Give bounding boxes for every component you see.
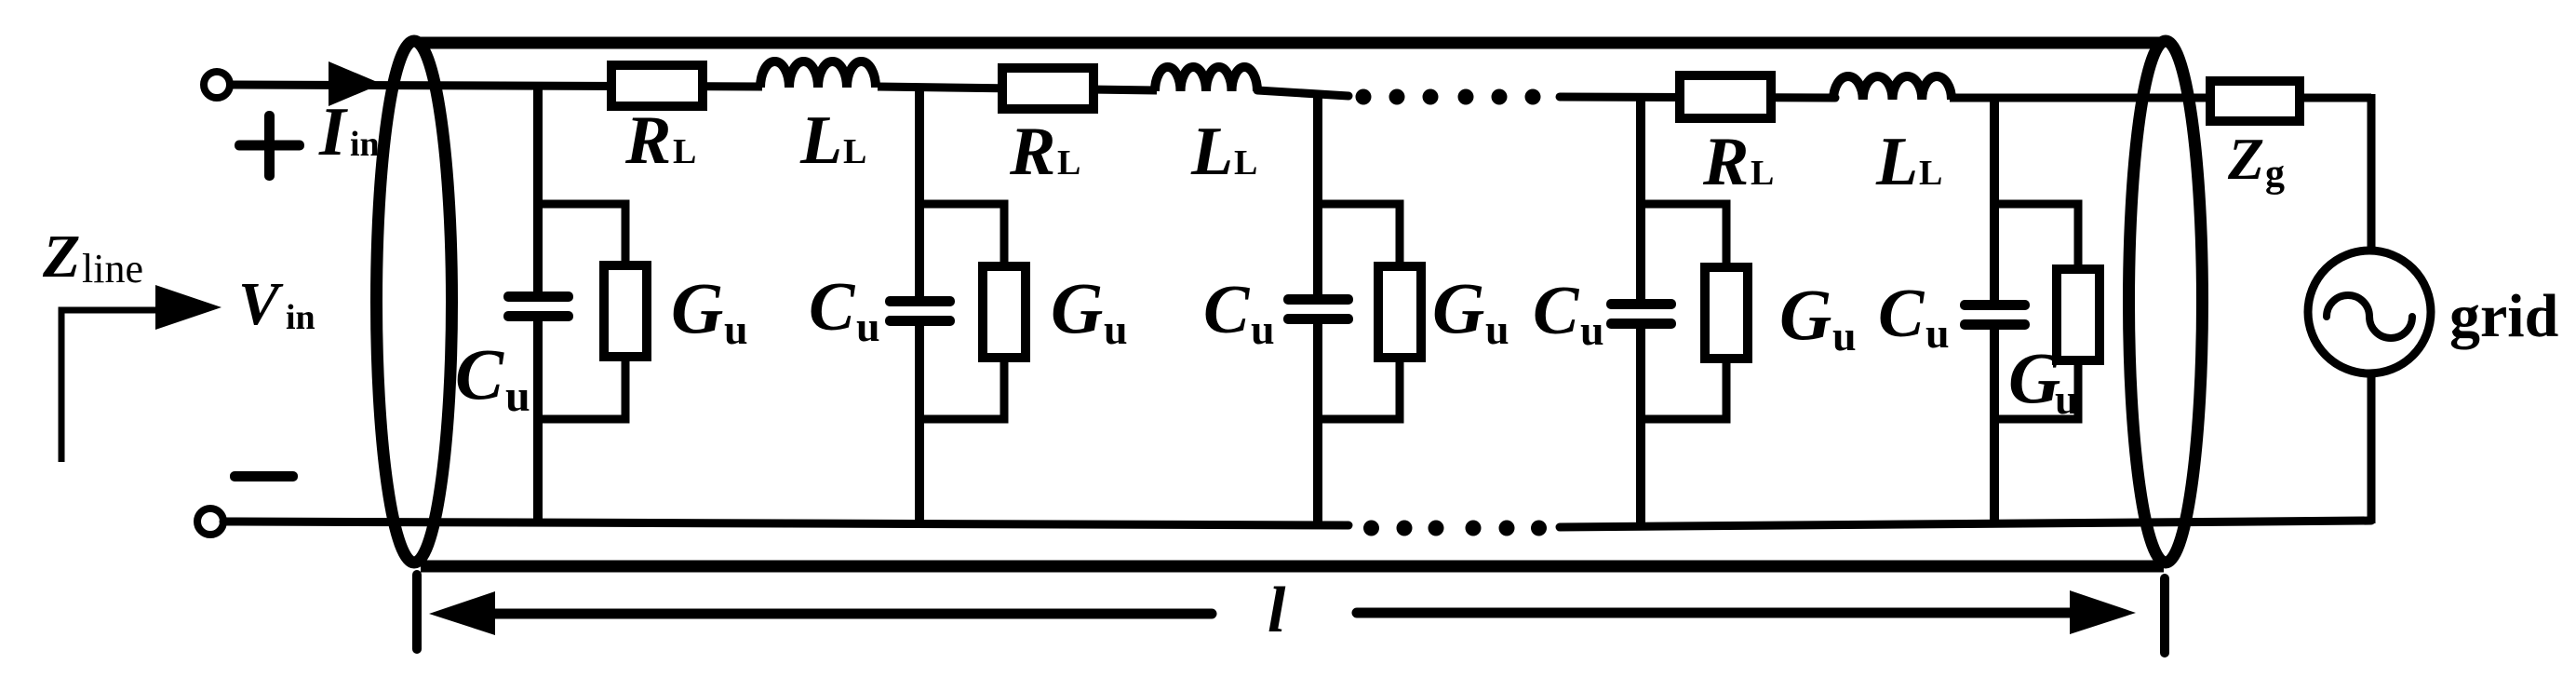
- minus sign: [230, 471, 298, 481]
- wire: source bottom vertical: [2368, 373, 2376, 523]
- dimension: right tick: [2160, 578, 2169, 653]
- node: left cable end ellipse: [377, 41, 452, 563]
- svg-text:G: G: [1779, 274, 1831, 355]
- wire: Gu branch 5 bottom: [1994, 360, 2078, 419]
- node: Zline bracket arrow: [61, 285, 221, 462]
- svg-text:G: G: [671, 267, 723, 348]
- svg-text:C: C: [1533, 273, 1580, 349]
- svg-text:l: l: [1268, 575, 1286, 646]
- dimension: right shaft: [1357, 608, 2073, 618]
- svg-text:L: L: [1875, 124, 1918, 200]
- svg-text:u: u: [724, 305, 748, 353]
- svg-text:in: in: [286, 298, 315, 337]
- resistor Gu section 4: [1705, 267, 1748, 359]
- svg-text:L: L: [673, 132, 696, 171]
- svg-text:in: in: [350, 125, 380, 164]
- label RL section 4: [1702, 124, 1774, 200]
- wire: shunt branch 5 upper: [1990, 98, 1999, 300]
- node: bottom ellipsis dots: [1363, 521, 1547, 536]
- wire: top between dots and R4: [1560, 97, 1835, 98]
- node: right cable end ellipse: [2129, 41, 2203, 563]
- wire: bottom left: [223, 522, 1348, 525]
- resistor RL section 1: [611, 65, 703, 106]
- label Gu section 5: [2008, 337, 2079, 423]
- svg-text:L: L: [1919, 154, 1942, 193]
- wire: shunt branch 2 lower: [915, 326, 924, 524]
- svg-text:u: u: [1485, 305, 1509, 353]
- label Cu section 5: [1878, 276, 1950, 357]
- svg-text:grid: grid: [2449, 282, 2558, 350]
- wire: Gu branch 4 bottom: [1641, 359, 1726, 419]
- svg-text:I: I: [318, 94, 348, 170]
- label Gu section 4: [1779, 274, 1857, 359]
- label Cu section 2: [809, 269, 880, 350]
- capacitor Cu section 1: [503, 292, 573, 321]
- wire: Gu branch 2 bottom: [919, 358, 1004, 419]
- svg-text:L: L: [1234, 143, 1257, 183]
- node: top ellipsis dots: [1356, 89, 1541, 105]
- label Zg: [2227, 126, 2285, 196]
- svg-text:L: L: [1057, 143, 1080, 183]
- resistor Gu section 2: [983, 266, 1026, 358]
- svg-text:G: G: [2008, 337, 2060, 418]
- wire: top between L1 and L2: [878, 87, 1157, 90]
- capacitor Cu section 4: [1606, 299, 1676, 329]
- label LL section 1: [799, 102, 866, 179]
- resistor Gu section 5: [2057, 269, 2100, 360]
- svg-text:G: G: [1432, 267, 1484, 348]
- svg-text:G: G: [1051, 267, 1103, 348]
- svg-text:L: L: [799, 102, 842, 179]
- svg-text:u: u: [1832, 312, 1857, 359]
- capacitor Cu section 5: [1960, 300, 2030, 330]
- dimension: left shaft: [491, 609, 1212, 619]
- wire: shunt branch 3 upper: [1313, 94, 1322, 294]
- svg-text:u: u: [2055, 375, 2079, 423]
- label Cu section 3: [1203, 272, 1275, 353]
- label Gu section 3: [1432, 267, 1509, 353]
- svg-text:C: C: [1203, 272, 1251, 348]
- svg-text:R: R: [624, 102, 671, 179]
- svg-text:C: C: [455, 333, 504, 414]
- wire: shunt branch 1 lower: [533, 321, 543, 523]
- label Vin: [238, 270, 315, 338]
- svg-text:u: u: [856, 303, 880, 350]
- wire: Gu branch 4 top: [1641, 204, 1726, 267]
- wire: top between L2 and dots: [1257, 90, 1348, 96]
- wire: top input wire: [230, 85, 762, 87]
- capacitor Cu section 3: [1283, 294, 1353, 324]
- svg-text:g: g: [2265, 153, 2285, 196]
- svg-text:u: u: [1580, 306, 1604, 354]
- current arrow Iin: [329, 61, 382, 106]
- svg-text:C: C: [1878, 276, 1925, 352]
- label l length: [1268, 575, 1286, 646]
- svg-text:R: R: [1009, 114, 1055, 190]
- dimension: left arrowhead: [429, 591, 495, 635]
- label grid: [2449, 282, 2558, 350]
- wire: shunt branch 5 lower: [1990, 330, 1999, 522]
- wire: shunt branch 4 upper: [1636, 98, 1645, 299]
- label Zline: [42, 223, 143, 292]
- wire: top between L4 and Zg: [1950, 94, 2371, 102]
- label LL section 4: [1875, 124, 1942, 200]
- dimension: right arrowhead: [2070, 590, 2136, 634]
- label Gu section 2: [1051, 267, 1128, 353]
- inductor LL section 1: [760, 61, 876, 88]
- svg-text:C: C: [809, 269, 856, 346]
- svg-text:R: R: [1702, 124, 1749, 200]
- wire: shunt branch 3 lower: [1313, 324, 1322, 525]
- plus sign: [235, 111, 304, 181]
- wire: cable bottom outline: [421, 561, 2164, 573]
- capacitor Cu section 2: [885, 296, 955, 326]
- label Cu section 1: [455, 333, 530, 421]
- wire: right vertical to source: [2368, 94, 2376, 251]
- AC source grid: [2308, 251, 2431, 373]
- label RL section 1: [624, 102, 696, 179]
- label LL section 2: [1190, 114, 1257, 190]
- label Gu section 1: [671, 267, 748, 353]
- node: top input terminal: [204, 72, 230, 98]
- svg-text:L: L: [843, 132, 866, 171]
- dimension: left tick: [412, 575, 422, 649]
- resistor Gu section 3: [1378, 266, 1421, 358]
- svg-text:u: u: [505, 372, 530, 421]
- svg-text:Z: Z: [2227, 126, 2264, 192]
- inductor LL section 2: [1155, 67, 1257, 91]
- resistor RL section 2: [1002, 68, 1093, 109]
- node: bottom input terminal: [197, 508, 223, 535]
- wire: Gu branch 1 top: [538, 204, 625, 265]
- wire: Gu branch 5 top: [1994, 204, 2078, 269]
- svg-text:L: L: [1190, 114, 1233, 190]
- wire: Gu branch 3 bottom: [1318, 358, 1400, 419]
- wire: cable top outline: [421, 37, 2164, 49]
- svg-text:Z: Z: [42, 223, 80, 291]
- resistor RL section 4: [1680, 75, 1771, 118]
- label Cu section 4: [1533, 273, 1604, 354]
- inductor LL section 4: [1833, 76, 1952, 100]
- wire: shunt branch 4 lower: [1636, 329, 1645, 527]
- wire: Gu branch 2 top: [919, 204, 1004, 266]
- label Iin: [318, 94, 380, 170]
- resistor Gu section 1: [604, 265, 647, 357]
- svg-text:u: u: [1104, 305, 1128, 353]
- svg-text:L: L: [1751, 154, 1774, 193]
- wire: shunt branch 2 upper: [915, 88, 924, 296]
- wire: Gu branch 3 top: [1318, 204, 1400, 266]
- svg-text:u: u: [1925, 309, 1950, 357]
- wire: shunt branch 1 upper: [533, 87, 543, 292]
- wire: Gu branch 1 bottom: [538, 357, 625, 419]
- svg-text:V: V: [238, 270, 284, 338]
- wire: bottom right: [1560, 521, 2371, 527]
- label RL section 2: [1009, 114, 1080, 190]
- resistor Zg: [2210, 81, 2300, 121]
- svg-text:line: line: [82, 246, 143, 292]
- svg-text:u: u: [1251, 305, 1275, 353]
